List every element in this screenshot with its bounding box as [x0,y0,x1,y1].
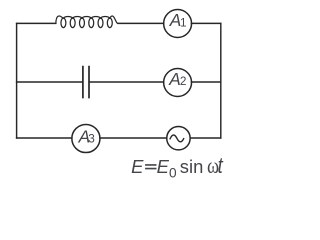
svg-text:1: 1 [180,15,187,29]
svg-text:E: E [131,156,144,177]
svg-text:2: 2 [180,74,187,88]
svg-text:A: A [168,69,181,89]
svg-text:E: E [157,156,170,177]
svg-text:3: 3 [88,132,95,146]
svg-text:0: 0 [169,165,177,180]
svg-text:sin: sin [180,156,204,177]
